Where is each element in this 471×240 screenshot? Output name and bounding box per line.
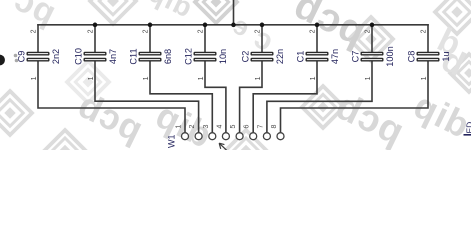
svg-text:2: 2 <box>88 29 95 33</box>
svg-text:6: 6 <box>244 125 251 129</box>
svg-text:1: 1 <box>365 76 372 80</box>
svg-text:dip: dip <box>407 84 471 146</box>
svg-text:2: 2 <box>31 29 38 33</box>
svg-text:6n8: 6n8 <box>163 49 173 64</box>
svg-text:1: 1 <box>143 76 150 80</box>
svg-text:2: 2 <box>143 29 150 33</box>
svg-text:dip: dip <box>149 94 218 150</box>
svg-text:pc: pc <box>8 0 62 32</box>
svg-text:C2: C2 <box>241 51 251 63</box>
svg-text:1: 1 <box>255 76 262 80</box>
svg-text:4n7: 4n7 <box>108 49 118 64</box>
svg-text:C12: C12 <box>184 48 194 65</box>
svg-text:C1: C1 <box>296 51 306 63</box>
svg-text:1: 1 <box>31 76 38 80</box>
svg-text:C8: C8 <box>407 51 417 63</box>
svg-text:1: 1 <box>198 76 205 80</box>
svg-text:100n: 100n <box>385 46 395 66</box>
svg-text:7: 7 <box>257 125 264 129</box>
svg-text:1: 1 <box>310 76 317 80</box>
svg-text:1u: 1u <box>441 51 451 61</box>
svg-text:2: 2 <box>310 29 317 33</box>
svg-text:C7: C7 <box>351 51 361 63</box>
svg-text:W1: W1 <box>167 135 177 149</box>
svg-text:22n: 22n <box>275 49 285 64</box>
svg-text:dip: dip <box>143 0 197 23</box>
svg-text:pcb: pcb <box>328 85 410 150</box>
svg-text:1: 1 <box>176 125 183 129</box>
svg-text:1: 1 <box>88 76 95 80</box>
svg-text:5: 5 <box>230 125 237 129</box>
svg-text:2n2: 2n2 <box>51 49 61 64</box>
svg-text:47n: 47n <box>330 49 340 64</box>
svg-text:8: 8 <box>271 125 278 129</box>
svg-text:3: 3 <box>203 125 210 129</box>
svg-text:C11: C11 <box>129 48 139 64</box>
svg-text:2: 2 <box>421 29 428 33</box>
svg-text:pcb: pcb <box>287 0 373 54</box>
svg-text:4: 4 <box>216 125 223 129</box>
svg-text:10n: 10n <box>218 49 228 64</box>
svg-text:pcb: pcb <box>71 84 149 150</box>
svg-text:C10: C10 <box>74 48 84 65</box>
svg-text:2: 2 <box>255 29 262 33</box>
svg-text:2: 2 <box>189 125 196 129</box>
svg-text:2: 2 <box>198 29 205 33</box>
svg-text:ED: ED <box>464 122 471 134</box>
svg-text:1: 1 <box>421 76 428 80</box>
svg-text:2: 2 <box>365 29 372 33</box>
